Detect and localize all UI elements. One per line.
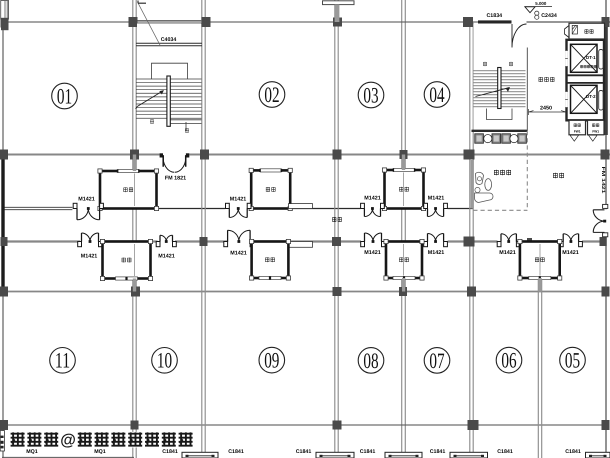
service room B5 (over V6) (520, 242, 560, 279)
stair S2 top door opening (512, 20, 527, 24)
stair S2 south wall (dark) (472, 130, 528, 132)
stub below B1 (133, 279, 136, 292)
svg-text:M1421: M1421 (78, 196, 94, 202)
DT-1 X diagonals (571, 44, 598, 72)
label 无障碍电梯 (580, 65, 583, 68)
svg-text:C1841: C1841 (360, 449, 376, 455)
C2434 symbol (535, 11, 539, 15)
wall: right exterior thick at elevator block (604, 22, 608, 135)
svg-text:M1421: M1421 (562, 250, 578, 256)
svg-text:C1841: C1841 (565, 449, 581, 455)
svg-text:C1841: C1841 (228, 449, 244, 455)
svg-text:C1834: C1834 (486, 13, 502, 19)
wall: left exterior (2, 19, 4, 458)
partition 02|03 / 09|08 full height (334, 0, 336, 458)
elevator door gaps (565, 51, 568, 67)
bottom wall west segment (2, 456, 134, 458)
corridor south wall door gaps (80, 240, 100, 244)
stair S1 break line (138, 3, 160, 45)
svg-text:C1841: C1841 (296, 449, 312, 455)
svg-text:10: 10 (157, 348, 172, 373)
svg-text:M1421: M1421 (158, 254, 174, 260)
label 电井 top (585, 29, 589, 33)
column wallA right (601, 150, 610, 160)
svg-text:M1421: M1421 (428, 250, 444, 256)
label 露台 (553, 173, 558, 178)
partition 03|04 / 08|07 (thin double) (401, 0, 403, 458)
wall: lower-rooms top (3, 291, 607, 293)
svg-text:DT-1: DT-1 (586, 55, 596, 60)
shaft mid wall lower (567, 82, 605, 84)
column HC V5 (468, 420, 479, 430)
louver V below 电井 (589, 135, 598, 141)
svg-text:M1421: M1421 (81, 254, 97, 260)
duct niche north (289, 204, 313, 209)
svg-text:FW1: FW1 (592, 130, 599, 134)
column top 04|block (463, 17, 473, 27)
stair S1 lower path tick (185, 122, 187, 131)
column wallA 03|04 (400, 150, 408, 159)
svg-text:C1841: C1841 (162, 449, 178, 455)
label shang S1 (150, 119, 154, 123)
svg-text:MQ1: MQ1 (94, 449, 106, 455)
unit circle 08 (358, 348, 384, 374)
door M1421 E5L (unit 06) (501, 234, 509, 242)
shaft mid wall upper (567, 74, 605, 76)
canopy bar above top wall (323, 1, 355, 5)
door FM1821 opening gap (160, 153, 190, 157)
room 水井 F W1 (569, 120, 586, 135)
svg-text:C2434: C2434 (541, 13, 557, 19)
column wallA 02|03 (333, 150, 342, 160)
furniture: plant (475, 187, 480, 192)
door M1421 E1L (unit 11) (82, 233, 91, 242)
svg-text:03: 03 (363, 82, 378, 107)
stub below B5 (538, 278, 541, 292)
unit circle 02 (259, 82, 285, 108)
unit circle 11 (50, 348, 76, 374)
wall: top lintel dark segment (478, 20, 512, 23)
column HB V5 (467, 287, 476, 297)
column top stair-west (129, 17, 138, 27)
svg-text:02: 02 (264, 82, 279, 107)
unit circle 03 (358, 82, 384, 108)
svg-text:06: 06 (501, 348, 516, 373)
column corS V5 (464, 237, 475, 247)
window: top-left corner jamb (1, 1, 9, 20)
door M1421 E3R (unit 07) (428, 233, 436, 241)
unit circle 01 (52, 83, 78, 109)
svg-text:MQ1: MQ1 (26, 449, 38, 455)
wall: stair S2 east / lobby west (526, 48, 528, 131)
stub wall above A3 (402, 155, 405, 171)
furniture: chair upper (476, 172, 484, 184)
column top right (602, 17, 610, 27)
stub wall above A1 (133, 155, 136, 172)
wall: corridor north seg4 (290, 208, 360, 210)
door FM1821 (double swing arch) (163, 155, 185, 172)
stair S2 arrow (476, 88, 510, 97)
service room A2 (251, 170, 290, 208)
wall: corridor north seg2-3 (100, 208, 225, 210)
wall: left exterior thick mid-band (1, 153, 4, 294)
column corS left (1, 237, 8, 246)
elevator door lines (565, 51, 568, 108)
service room B3 (over V4) (386, 242, 422, 279)
stair S1 center rail (167, 76, 170, 126)
svg-text:11: 11 (55, 348, 70, 373)
label shang S2 (509, 62, 513, 66)
stair S1 treads (136, 78, 202, 80)
wall: 04|stair-block / 07|06 (469, 22, 471, 458)
wall: right exterior (605, 0, 607, 458)
door M1421 E1R (unit 10) (160, 235, 166, 241)
planter circles (484, 135, 492, 143)
电井 louver left (565, 26, 570, 38)
column HB right (602, 287, 610, 297)
louver V below 水井 (570, 135, 579, 141)
elevator shaft outer box (567, 40, 605, 121)
door M1421 D3L (03 unit) (364, 209, 372, 217)
partition 10|09 down (201, 155, 203, 458)
svg-text:01: 01 (57, 83, 72, 108)
column HB V3 (333, 287, 342, 296)
unit circle 10 (152, 348, 178, 374)
stair S1 interior clear (137, 24, 201, 141)
svg-text:5.000: 5.000 (535, 1, 547, 6)
svg-text:05: 05 (565, 348, 580, 373)
stair S2 center rail (498, 68, 501, 109)
DT-1 counterweight slot (599, 50, 604, 70)
wall: corridor north (window band west) (3, 206, 72, 208)
stub below B3 (402, 278, 405, 292)
svg-text:DT-2: DT-2 (586, 94, 596, 99)
svg-text:08: 08 (363, 348, 378, 373)
label xia S2 (483, 62, 487, 66)
unit circle 06 (496, 347, 522, 373)
stair S1 arrow tail (136, 107, 138, 109)
wall: rest area west (471, 160, 474, 209)
column corS V3 (332, 237, 341, 246)
column HB left (0, 287, 8, 297)
door M1421 E5R (unit 05) (563, 234, 571, 242)
svg-text:09: 09 (264, 348, 279, 373)
column top stair-east (202, 17, 211, 27)
column HC right (602, 420, 610, 430)
wall: stair S1 east (201, 0, 203, 155)
planter row below stair S2 (475, 134, 484, 143)
dashed boundary horizontal (473, 209, 527, 211)
stair S1 top corner mark (138, 1, 146, 4)
partition V1 through room A1 (134, 174, 136, 207)
DT-2 X diagonals (571, 85, 598, 113)
stair S2 lower loop (487, 109, 513, 120)
column HC V3 (333, 421, 342, 430)
column HB V1 (131, 287, 140, 297)
dimension line 2450 (529, 109, 567, 115)
window C4034 double line (136, 42, 202, 44)
partition V1 through room B1 (134, 244, 136, 276)
svg-text:M1421: M1421 (230, 196, 246, 202)
bottom window symbols (182, 452, 218, 458)
svg-text:04: 04 (429, 82, 444, 107)
wall A: corridor-band north boundary (3, 154, 610, 156)
svg-text:M1421: M1421 (230, 251, 246, 257)
partition 06|05 (bottom bands) (537, 242, 539, 458)
svg-text:FW1: FW1 (574, 130, 581, 134)
DT-2 counterweight slot (599, 91, 604, 111)
svg-text:M1421: M1421 (499, 250, 515, 256)
column HC V1 (131, 421, 139, 430)
wall: corridor north seg5 (448, 208, 473, 210)
watermark 搜狐号@搜狐焦点仙桃站 (11, 432, 25, 446)
duct niche south (289, 242, 313, 248)
partition V4 through room B3 (403, 244, 405, 276)
furniture: round table ellipse (485, 179, 492, 191)
svg-text:@: @ (60, 432, 76, 449)
svg-text:M1421: M1421 (364, 196, 380, 202)
door M1421 E3L (unit 08) (365, 233, 374, 242)
wall: stair S1 west (extends above top) (132, 0, 134, 155)
unit circle 07 (424, 348, 450, 374)
room 电井 top (569, 23, 605, 39)
partition V6 through room B5 (539, 244, 541, 276)
left edge window symbol bottom (0, 431, 4, 452)
label elevator hall 电梯厅 (539, 77, 543, 82)
door FM甲1421 gap (603, 209, 609, 232)
label xia S1 (185, 128, 189, 132)
svg-text:M1421: M1421 (428, 196, 444, 202)
wall: corridor south boundary (3, 240, 604, 242)
label corridor 走廊 (332, 217, 336, 222)
svg-text:FM 1821: FM 1821 (165, 175, 186, 181)
level marker triangle (525, 7, 535, 13)
stair S1 landing edge double line (167, 119, 202, 121)
partition 01|10 line down (132, 155, 134, 458)
wall: top exterior (9, 21, 479, 23)
column HB V4 (399, 287, 407, 296)
door FM甲1421 arcs (593, 210, 604, 233)
svg-text:FM 1421: FM 1421 (600, 167, 606, 194)
stair S1 direction arrow (137, 91, 163, 107)
unit circle 05 (560, 347, 586, 373)
label FM甲1421 vertical (600, 167, 606, 194)
door M1421 D3R (04 unit) (428, 209, 436, 217)
labels 水井/电井 tiny (574, 124, 577, 127)
stair S1 up-path loop (152, 63, 188, 79)
column corS lobby corner (527, 238, 532, 245)
column HC left (0, 420, 8, 430)
svg-text:07: 07 (429, 348, 444, 373)
unit circle 09 (259, 347, 285, 373)
column A row2 (0, 150, 8, 160)
door at stair S2 top (512, 24, 527, 48)
elevator DT-2 cab (571, 85, 598, 113)
level marker line (525, 6, 553, 8)
service room A1 (over V1) (100, 171, 157, 209)
canopy stem (335, 5, 340, 22)
column wallA stair-east (200, 150, 209, 160)
svg-text:C1841: C1841 (430, 449, 446, 455)
door M1421 D2 (02 unit) (229, 209, 238, 218)
wall: top of stair S1 (double) (136, 20, 202, 22)
partition V4 through room A3 (403, 173, 405, 207)
label 休息区 (494, 170, 499, 175)
column corS right (600, 237, 607, 246)
svg-text:C1841: C1841 (497, 449, 513, 455)
svg-text:C4034: C4034 (161, 37, 177, 43)
wall: bottom interior (3, 424, 607, 426)
door M1421 D1 (01 unit) (77, 209, 88, 220)
unit circle 04 (424, 82, 450, 108)
column A-1 (1, 17, 9, 28)
column corS V2 (200, 237, 208, 246)
stair S2 treads (474, 70, 526, 72)
电井 hatch box (572, 25, 577, 34)
furniture: chair lower (474, 193, 493, 203)
stair S2 interior clear (474, 24, 526, 130)
column below corner window (1, 18, 9, 30)
service room B1 (over V1) (103, 242, 151, 279)
svg-text:M1421: M1421 (364, 250, 380, 256)
room 电井 F W1 (588, 120, 605, 135)
elevator DT-1 cab (571, 44, 598, 72)
service room B2 (252, 242, 289, 279)
dashed boundary vertical (526, 131, 528, 211)
column top 02|03 (333, 18, 342, 27)
door M1421 E2 (unit 09) (228, 230, 239, 241)
column wallA stair-west (130, 150, 139, 160)
column wallA 04|block (464, 150, 475, 160)
svg-text:2450: 2450 (540, 105, 552, 111)
service room A3 (over V4) (385, 170, 424, 209)
